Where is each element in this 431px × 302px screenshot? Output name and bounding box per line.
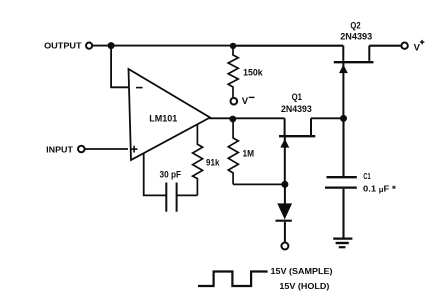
svg-text:C1: C1 [363,172,371,181]
svg-text:V: V [414,42,421,53]
svg-text:15V (SAMPLE): 15V (SAMPLE) [271,266,333,276]
svg-text:150k: 150k [243,67,263,77]
svg-text:V: V [242,96,249,107]
svg-text:2N4393: 2N4393 [281,104,312,114]
svg-text:INPUT: INPUT [46,144,74,154]
svg-text:Q1: Q1 [292,92,302,102]
svg-text:15V (HOLD): 15V (HOLD) [279,281,329,291]
svg-text:Q2: Q2 [350,20,360,30]
svg-text:1M: 1M [243,149,255,159]
svg-text:OUTPUT: OUTPUT [44,41,82,51]
svg-text:91k: 91k [206,157,220,167]
svg-text:LM101: LM101 [149,113,177,123]
svg-text:30 pF: 30 pF [160,169,182,179]
svg-text:2N4393: 2N4393 [340,31,372,41]
